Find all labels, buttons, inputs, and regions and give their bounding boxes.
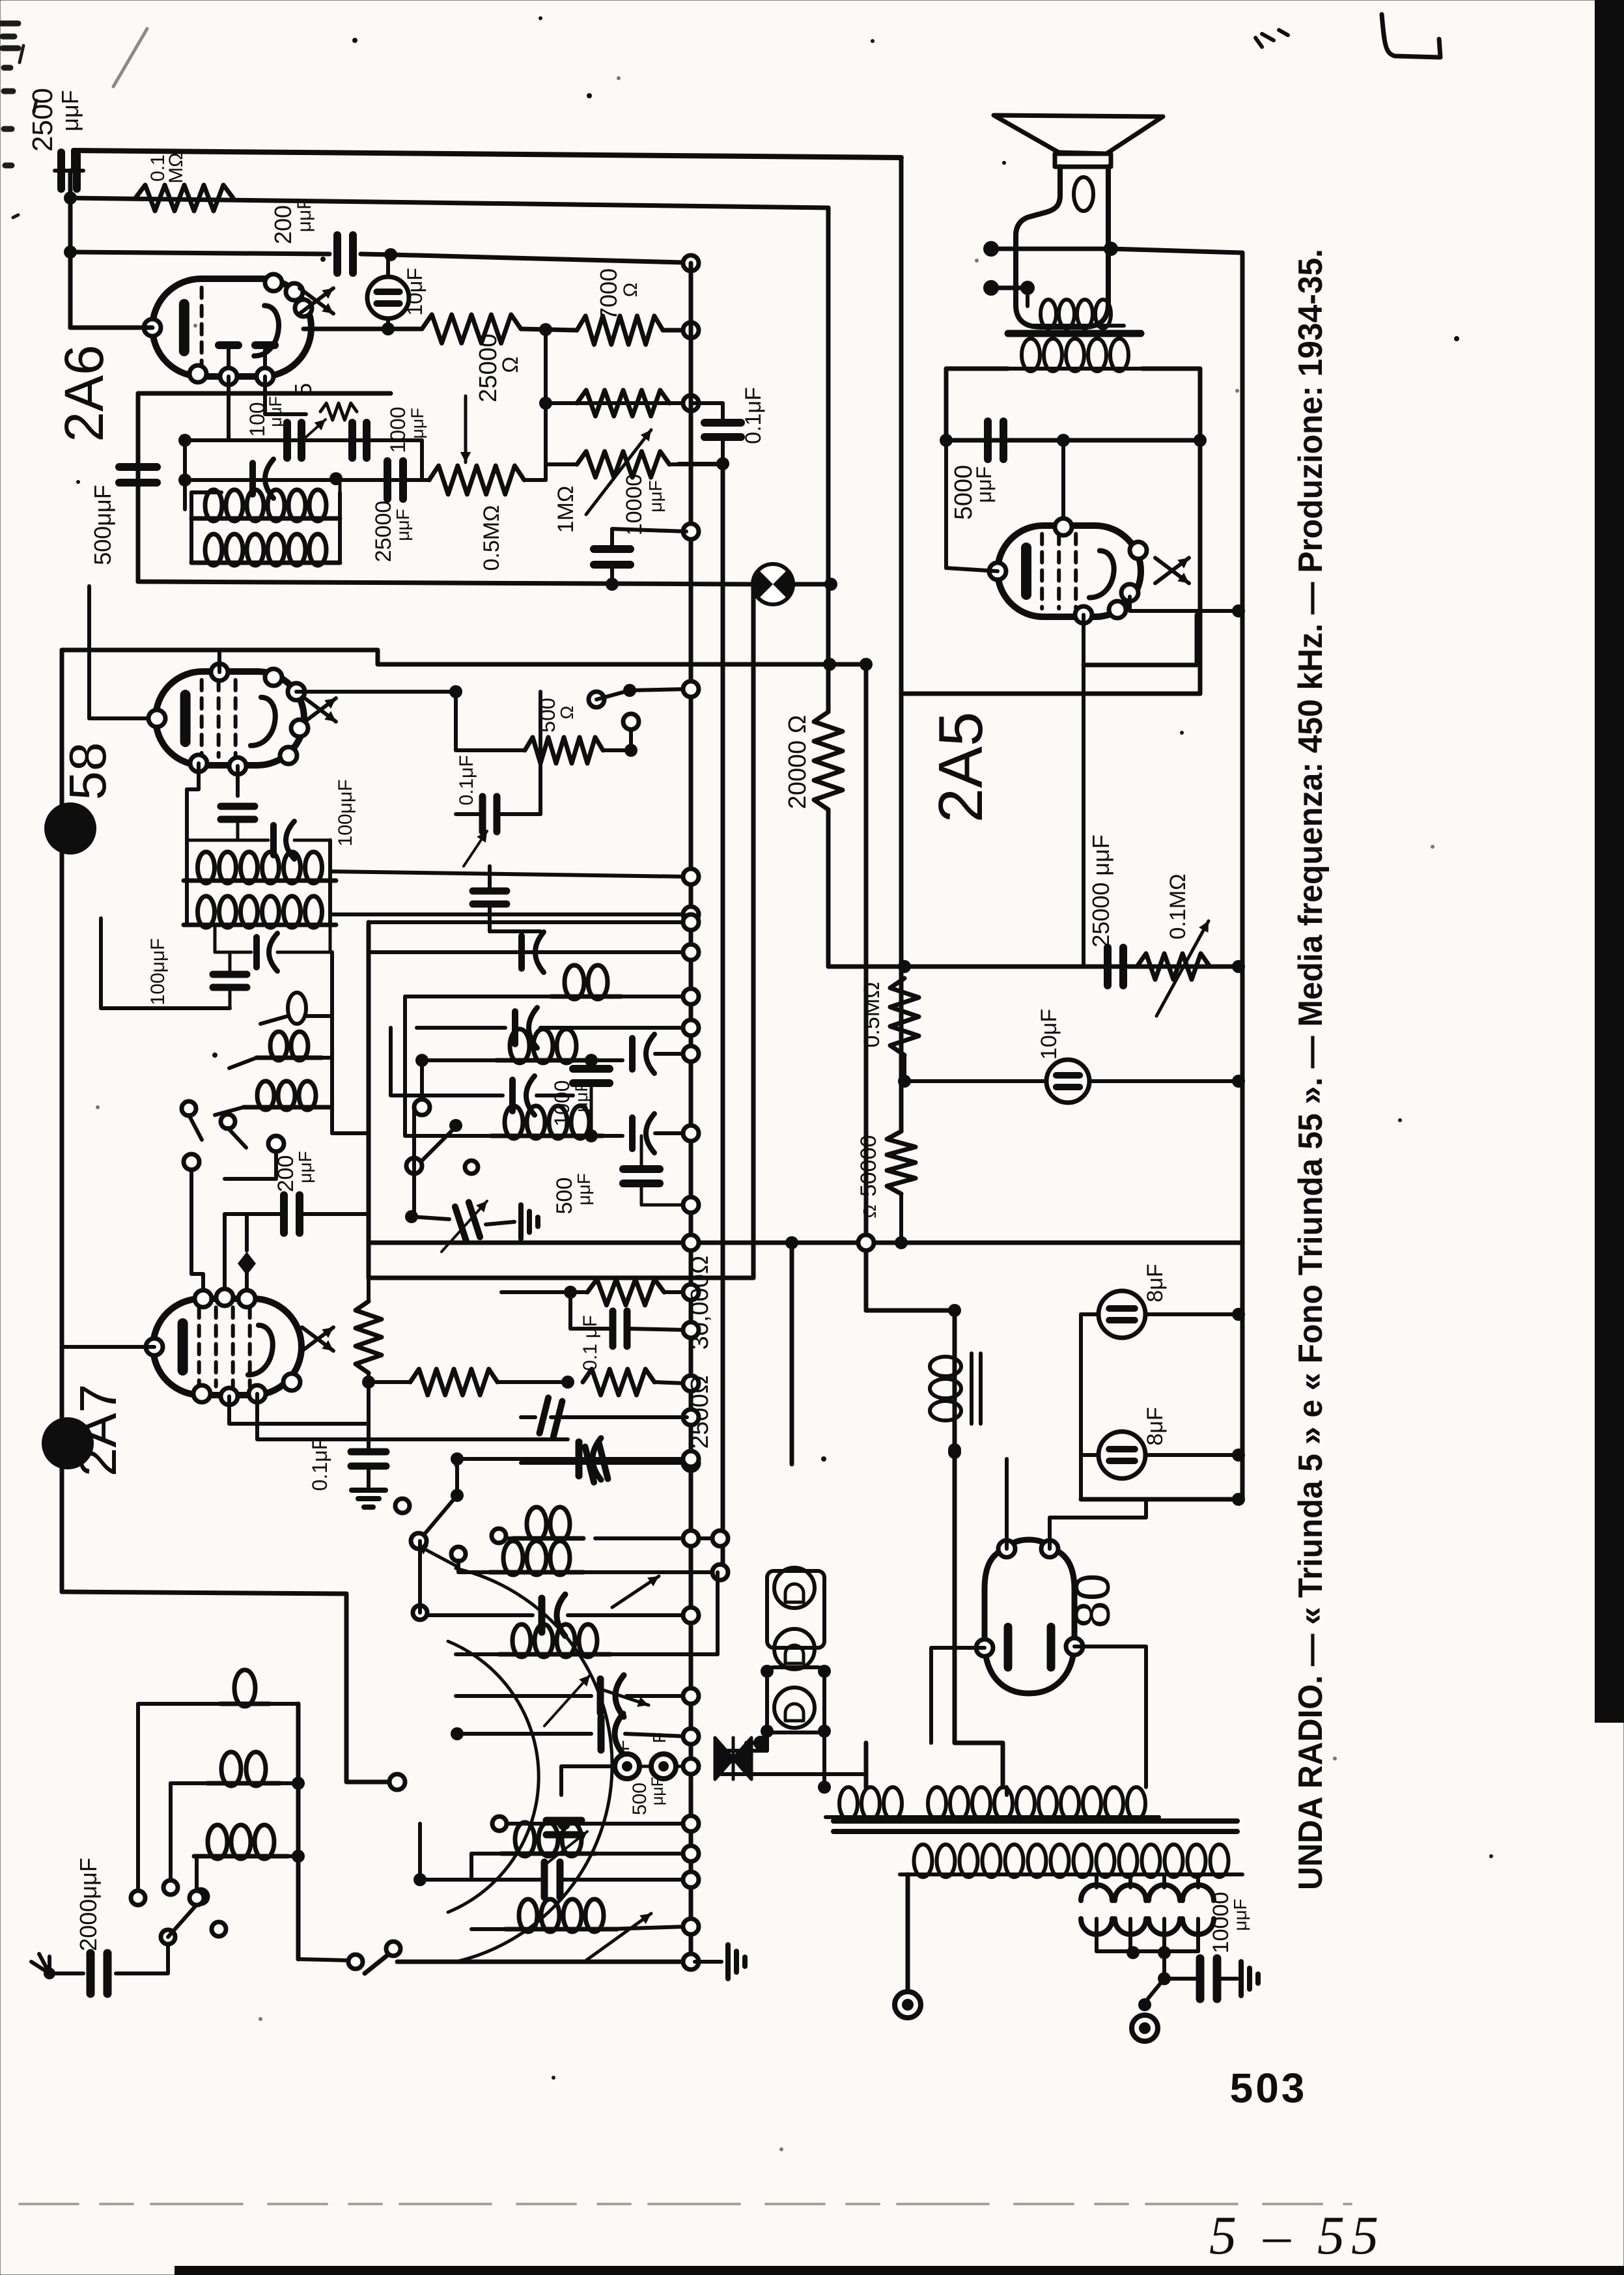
IFT2 lower tuning cap [253,937,260,967]
top-right small scribble [1255,30,1288,47]
trimmer y1740 [629,1118,636,1149]
tube 2A6 pins [144,319,161,336]
node on bus IFT2 [683,907,699,922]
small resistor 5 [320,403,357,420]
pilot frame dots [761,1665,774,1678]
node bus y2604 [683,1688,699,1704]
tube 2A6 grid caps [219,341,275,349]
power transformer core [833,1818,1237,1824]
IFT2 secondary coil [198,896,215,927]
ground mid right [518,1205,524,1239]
capacitor 0.1uF 2A7 [351,1448,386,1456]
node dot mid x632 [405,1210,418,1223]
wire y2302 [1081,1497,1239,1502]
node dot lamp right [824,578,837,591]
svg-text:μμF: μμF [57,90,83,131]
wire pot lower leads [546,462,577,466]
ground bottom bus [725,1945,731,1979]
wire 30000 leads [501,1290,587,1294]
wire x532 down [346,1594,391,1782]
wire y604 under tube [138,391,391,396]
cap tilt y2246 [585,1443,608,1482]
svg-text:μμF: μμF [574,1173,594,1205]
wire x636 vertical [412,1107,416,1217]
node dot pilot right [818,1781,831,1794]
wire phono left [561,1766,615,1795]
coil gang 4loop b [519,1899,537,1932]
PT primary small [839,1787,858,1820]
pilot lamp frame [767,1571,824,1648]
wire 2A7 top leads [191,1162,203,1299]
wire y676 2A5 [946,438,1200,443]
tube 2A7 diode arrows [302,1327,333,1351]
wire y1984 resistor 30000 [587,1279,664,1305]
wire grid lead a [227,376,231,440]
wire T2 low left [101,1006,230,1010]
wire selector down [1162,1953,1166,1979]
node on bus 7000 [683,322,699,338]
wire line A vertical drop [899,158,904,1131]
wire x648 vertical [420,1060,424,1107]
svg-text:2A5: 2A5 [926,712,996,823]
ground PT [1239,1962,1244,1996]
selector bus dots [1127,1946,1140,1959]
wire horizontal y998 [62,650,866,664]
osc tap coil 1 [288,993,306,1024]
antenna switch blade [168,1902,199,1937]
node dot y737 b [329,472,343,485]
speaker cone [994,115,1163,154]
wire ant coil1 left [136,1704,140,1891]
wire left rail 2 [60,650,64,1592]
node dot 10000 bottom [606,578,619,591]
speaker terminal a [983,241,999,257]
node bus y2958 [683,1919,699,1934]
rotary switch X [715,1738,751,1779]
svg-text:80: 80 [1065,1574,1121,1629]
wire 2A6 cathode left [70,326,152,330]
wire 500 left [456,748,525,752]
speaker field coil [1041,300,1056,328]
wire x1843 down [1198,440,1203,694]
svg-text:5: 5 [290,383,316,396]
wire 80 top pin a [1005,1459,1009,1549]
tube 58 envelope [156,671,304,765]
node dot x1908 y938 [1232,604,1245,617]
gang arc arrow c [417,1545,456,1566]
capacitor 500uuF left [119,463,157,471]
osc tap coil 2 [270,1032,287,1060]
tube 80 pins [998,1540,1015,1557]
wire 80 right pin [1074,1646,1146,1787]
node dot 200uuF junction [384,248,397,261]
osc tap blade a [189,1115,202,1140]
wire OT sec right [1142,369,1200,440]
wire ant bottom to switch [298,1959,349,1960]
wire left rail3 [136,393,141,582]
node dot 1389 1660 [898,1075,911,1088]
node dot y1628 a [415,1054,428,1067]
node bus y2800 [683,1816,699,1831]
wire 2A7 pin395 [257,1394,568,1439]
antenna bottom blade [365,1953,391,1973]
pilot lamp 2 [774,1629,815,1669]
node switch x600 [389,1774,405,1790]
wire x1546 to PT [1005,1787,1009,1795]
wire bus gnd stub [695,1960,721,1964]
svg-text:μμF: μμF [295,1151,315,1183]
top-left pencil line [113,29,147,87]
resistor osc horizontal [410,1369,497,1395]
node dot pot left [539,397,552,410]
svg-text:100μμF: 100μμF [335,780,356,847]
switch node a [589,692,604,707]
arrow coil4b [586,1914,651,1960]
svg-text:0.1μF: 0.1μF [308,1437,331,1491]
svg-text:F: F [613,1740,633,1751]
node 2A7 top left [268,1136,284,1152]
node bus y1578 [683,1020,699,1036]
capacitor 200uuF 2A7 [280,1195,288,1233]
wire ant right bus [296,1704,301,1959]
wire 10uF drop [386,255,390,277]
IFT1 primary coil [205,490,222,521]
wire spk term b drop [1026,288,1029,306]
node dot 0.1uF bottom [716,457,729,470]
node dot 8uF b [1232,1448,1245,1462]
top-right pen hook mark [1382,14,1440,57]
wire y1021 link [1084,615,1197,665]
cap curved 100uuF T1 [249,463,256,494]
node dot sel y3038 [1158,1972,1171,1985]
wire bus3 vertical [751,589,756,1278]
wire y388 [1111,249,1242,253]
tube 58 pins [148,710,165,727]
IFT1 link stub [189,531,193,563]
svg-text:2500: 2500 [27,88,59,152]
svg-text:500μμF: 500μμF [89,485,116,565]
node dot osc res [362,1376,375,1389]
wire 2A5 left pin [946,568,998,571]
node bus y3012 [683,1954,699,1970]
wire PT sec left down [906,1874,910,1990]
wire pot top [546,401,684,405]
node x1106 y2414 [712,1564,728,1580]
wire x1908 vertical [1240,253,1245,1499]
wire 2A5 right lower [1130,597,1237,611]
wire pilot right down [822,1731,826,1787]
tube 80 plates [1004,1627,1013,1667]
node dot 1000 mid top [585,1054,598,1067]
tube 2A7 envelope [153,1299,301,1395]
wire 2500 right [654,1382,687,1383]
terminal PT right [1132,2015,1158,2041]
pilot lamp 3 [774,1688,815,1728]
osc tap coil 3 [257,1081,274,1110]
wire OT sec left [946,369,1008,440]
wire x284 vert [183,440,187,509]
wire 80 top pin b [1050,1502,1146,1549]
wire left rail [68,171,73,328]
wire lamp left [138,582,753,584]
bottom edge black scan band [175,2266,1624,2275]
svg-text:UNDA RADIO. — « Triunda 5 » e: UNDA RADIO. — « Triunda 5 » e « Fono Tri… [1292,249,1330,1890]
node bus y1416 [683,914,699,930]
node dot y1020 b [860,658,873,671]
node dot y2886 [413,1873,427,1886]
resistor pot upper [577,390,669,416]
wire x1466 segment [955,1309,1003,1787]
blob near 2A7 [42,1417,94,1469]
arrow pot wiper [586,430,651,515]
IFT1 secondary coil [205,534,222,565]
node on bus pot upper [683,395,699,411]
node switch x648 [414,1099,430,1115]
wire x702 vert [455,1459,459,1495]
gang arc arrow b [598,1688,649,1705]
node dot choke bottom [948,1446,961,1459]
speaker inner loop [1074,177,1093,211]
wire x566 vertical [367,922,371,1278]
variable cap mid tilt [455,1202,480,1241]
tube 2A5 diode arrows [1155,558,1189,584]
electrolytic 10uF [367,277,409,318]
tube 2A5 pins [989,563,1006,580]
wire 2A7 osc lead [225,1152,276,1179]
node dot 10uF right [1232,1075,1245,1088]
wire osc res right [497,1380,568,1384]
resistor 50000 vertical [887,1131,916,1194]
wire switch to bus [630,689,686,690]
node bus y1462 [683,944,699,960]
switch dot b [623,684,636,697]
node bus y2666 [683,1729,699,1744]
svg-text:20000 Ω: 20000 Ω [784,715,811,810]
wire switch blade [596,690,630,699]
coil mid 2loop [565,965,584,999]
wire pilot bottom [721,1731,767,1774]
trimmer y2480 [539,1598,546,1632]
wire line B [70,198,828,208]
antenna coil 3loop [208,1825,227,1859]
cap curved y1578 [512,1011,518,1044]
cap curved y1682 [509,1080,516,1111]
wire 0.5M right [524,478,546,482]
wire line C [70,252,329,254]
PT primary main [928,1787,946,1820]
capacitor 25000uuF E [1104,948,1112,985]
osc tap node b [221,1114,235,1129]
wire coil3b left [469,1854,473,1880]
svg-text:0.5MΩ: 0.5MΩ [860,982,884,1047]
arrow variable mid [441,1201,487,1252]
wire y2688 stub [721,1772,866,1776]
resistor 0.5M horizontal [429,466,524,494]
wire grid lead b [265,376,306,414]
wire 58 plate right [296,692,456,750]
node dot y1020 a [823,658,836,671]
wire line C right [361,254,684,262]
node y1908 bus [683,1235,699,1251]
node bus y2246 [683,1455,699,1471]
svg-text:8μF: 8μF [1143,1407,1168,1445]
wire x645 vert [418,1541,422,1613]
node dot y2240 [451,1452,464,1465]
wire 50000 bottom [899,1194,903,1243]
arrow 0.1uF [464,831,487,866]
coil gang 4loop a [512,1624,531,1657]
svg-text:2A6: 2A6 [53,345,115,442]
wire y1962 [369,1276,753,1280]
node dot lineC left [64,246,77,259]
wire E line y1484 [828,965,1242,969]
wire y2800 [507,1822,557,1826]
node dot y676 right [1194,434,1207,447]
resistor osc vertical [356,1301,382,1373]
8uF electrolytic b [1099,1432,1145,1478]
node on bus top [683,255,699,271]
arrow 0.1M variable [1156,921,1209,1016]
svg-text:0.1MΩ: 0.1MΩ [1166,873,1190,939]
coil gang 2loop [527,1507,546,1541]
svg-text:0.1μF: 0.1μF [741,387,766,444]
wire top line A [74,150,901,171]
node dot 2500 left [561,1376,574,1389]
wire line B vertical drop [826,208,831,712]
selector arcs lower [1081,1919,1112,1934]
wire bus5 vertical x1330 [864,664,869,1310]
wire antenna cap right [116,1943,168,1973]
node dot ant y2738 [292,1777,305,1790]
svg-text:μμF: μμF [294,198,315,233]
wire 80 left pin [931,1648,985,1743]
svg-text:μμF: μμF [649,1777,667,1805]
switch node c [623,714,639,729]
wire IFT2 sec right to bus [330,912,687,916]
PT secondary [914,1844,932,1877]
node dot y2302 [1232,1493,1245,1506]
node bus y2846 [683,1846,699,1861]
capacitor 100uuF T2 [221,803,255,810]
wire X to frame [746,1741,767,1745]
wire IFT2 to bus upper [330,871,687,877]
terminal PT left [895,1992,921,2018]
wire mid anode drop [544,330,548,480]
trimmer y2604 [597,1679,604,1713]
trimmer y2662 [598,1717,605,1750]
resistor 0.1M variable [1137,954,1210,980]
paper specks [76,16,1493,2080]
capacitor 0.1uF right [705,419,741,427]
cap tilt y2176 [540,1398,563,1437]
wire antenna to cap [49,1971,83,1975]
capacitor 0.1uF 58 [479,797,486,832]
capacitor 1000uuF a [348,423,356,458]
svg-text:μμF: μμF [645,480,665,512]
capacitor 1000uuF mid [573,1065,609,1073]
cap curved y2240 [576,1442,583,1476]
speaker driver body [1016,167,1108,327]
wire 10uF to cathode line [386,318,390,329]
tube 2A6 envelope [152,279,311,376]
wire x1660 loop [1079,1314,1083,1499]
speaker voice coil [1055,154,1111,167]
speaker terminal b [983,280,999,296]
wire bus2 vertical [721,464,725,1573]
selector arcs upper [1081,1885,1112,1901]
wire y1462 [369,950,687,954]
svg-text:μμF: μμF [393,509,413,541]
nested wire mid b [391,1028,430,1095]
node bus 2500 [683,1376,699,1391]
capacitor y2886 [541,1862,548,1897]
tube 58 diode arrows [305,698,336,722]
svg-text:1MΩ: 1MΩ [553,486,578,533]
cap curved y1462 [518,936,525,968]
switch blade x702 [422,1495,457,1537]
wire grid drop 2A5 [1061,440,1065,522]
capacitor 10000uuF [1196,1958,1205,1999]
capacitor 100uuF [283,423,291,458]
IFT2 primary coil [198,852,215,883]
wire spk term a [999,247,1111,251]
wire y2246 [581,1461,687,1465]
node bus phono [683,1759,699,1774]
node bus 0.1pad [683,1322,699,1338]
wire osc tap rail [330,952,334,1133]
wire x1106 corner [716,1572,720,1654]
wire 7000 to bus [663,328,688,333]
wire osc res bottom [367,1373,371,1391]
resistor 7000 horizontal [577,316,663,345]
osc tap blade b [228,1128,246,1148]
node bus y2480 [683,1607,699,1623]
svg-text:58: 58 [59,742,117,800]
node dot E 1389 [898,960,911,973]
wire node c lead [629,729,633,750]
wire 8uF b [1081,1453,1099,1457]
tube 2A6 diode arrows [300,289,333,314]
node coilc left [413,1605,427,1620]
wire y1065 [904,692,1200,696]
svg-text:8μF: 8μF [1143,1264,1168,1302]
node bus y1530 [683,989,699,1004]
svg-text:10000: 10000 [622,474,647,536]
node coil3 left [451,1547,466,1561]
svg-text:0.1 μF: 0.1 μF [580,1315,601,1371]
node dot y676 left [940,434,953,447]
svg-text:Ω: Ω [498,356,523,373]
node dot y1908 1384 [895,1236,908,1249]
wire 2A7 grid left [62,1345,154,1349]
wire 20000 bottom [826,810,831,967]
antenna switch node b [193,1889,208,1904]
svg-text:2000μμF: 2000μμF [75,1858,102,1951]
svg-text:0.1μF: 0.1μF [456,755,477,805]
wire y676 [185,438,422,442]
capacitor 0.1uF pad [609,1311,617,1346]
node bus y2240 [683,1451,699,1467]
node bus y2176 [683,1409,699,1425]
arrow 0.5M wiper [464,396,468,462]
svg-text:7000: 7000 [595,268,622,320]
coil gang 3loop b [515,1822,535,1856]
node dot x1216 top [785,1236,798,1249]
node dot y737 a [178,473,191,487]
lamp dial [753,564,793,604]
node dot y2800 [557,1817,570,1830]
coil mid 3loop [510,1029,529,1063]
